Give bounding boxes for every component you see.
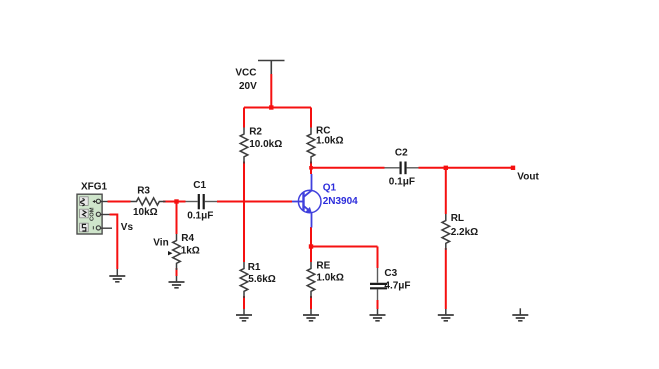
svg-text:C3: C3 [384,268,397,279]
svg-text:Vin: Vin [153,238,168,249]
svg-text:C1: C1 [193,180,206,191]
svg-text:R2: R2 [249,127,262,138]
svg-text:20V: 20V [239,81,257,92]
svg-text:1.0kΩ: 1.0kΩ [316,136,343,147]
svg-text:VCC: VCC [235,68,256,79]
svg-text:XFG1: XFG1 [81,182,108,193]
svg-text:Vs: Vs [121,222,134,233]
svg-text:1.0kΩ: 1.0kΩ [316,273,343,284]
svg-text:Q1: Q1 [323,183,337,194]
svg-text:RE: RE [316,261,330,272]
svg-text:0.1μF: 0.1μF [389,177,415,188]
svg-text:R4: R4 [181,233,194,244]
svg-text:5.6kΩ: 5.6kΩ [248,274,275,285]
svg-text:Vout: Vout [517,172,539,183]
svg-text:R1: R1 [248,262,261,273]
svg-text:C2: C2 [395,148,408,159]
svg-text:10kΩ: 10kΩ [133,207,158,218]
svg-text:4.7μF: 4.7μF [384,281,410,292]
svg-text:2N3904: 2N3904 [323,196,358,207]
svg-text:1kΩ: 1kΩ [181,246,200,257]
svg-text:RL: RL [451,213,464,224]
svg-text:10.0kΩ: 10.0kΩ [249,139,282,150]
svg-text:COM: COM [90,207,96,221]
svg-text:2.2kΩ: 2.2kΩ [451,227,478,238]
svg-text:R3: R3 [137,186,150,197]
svg-text:0.1μF: 0.1μF [187,211,213,222]
